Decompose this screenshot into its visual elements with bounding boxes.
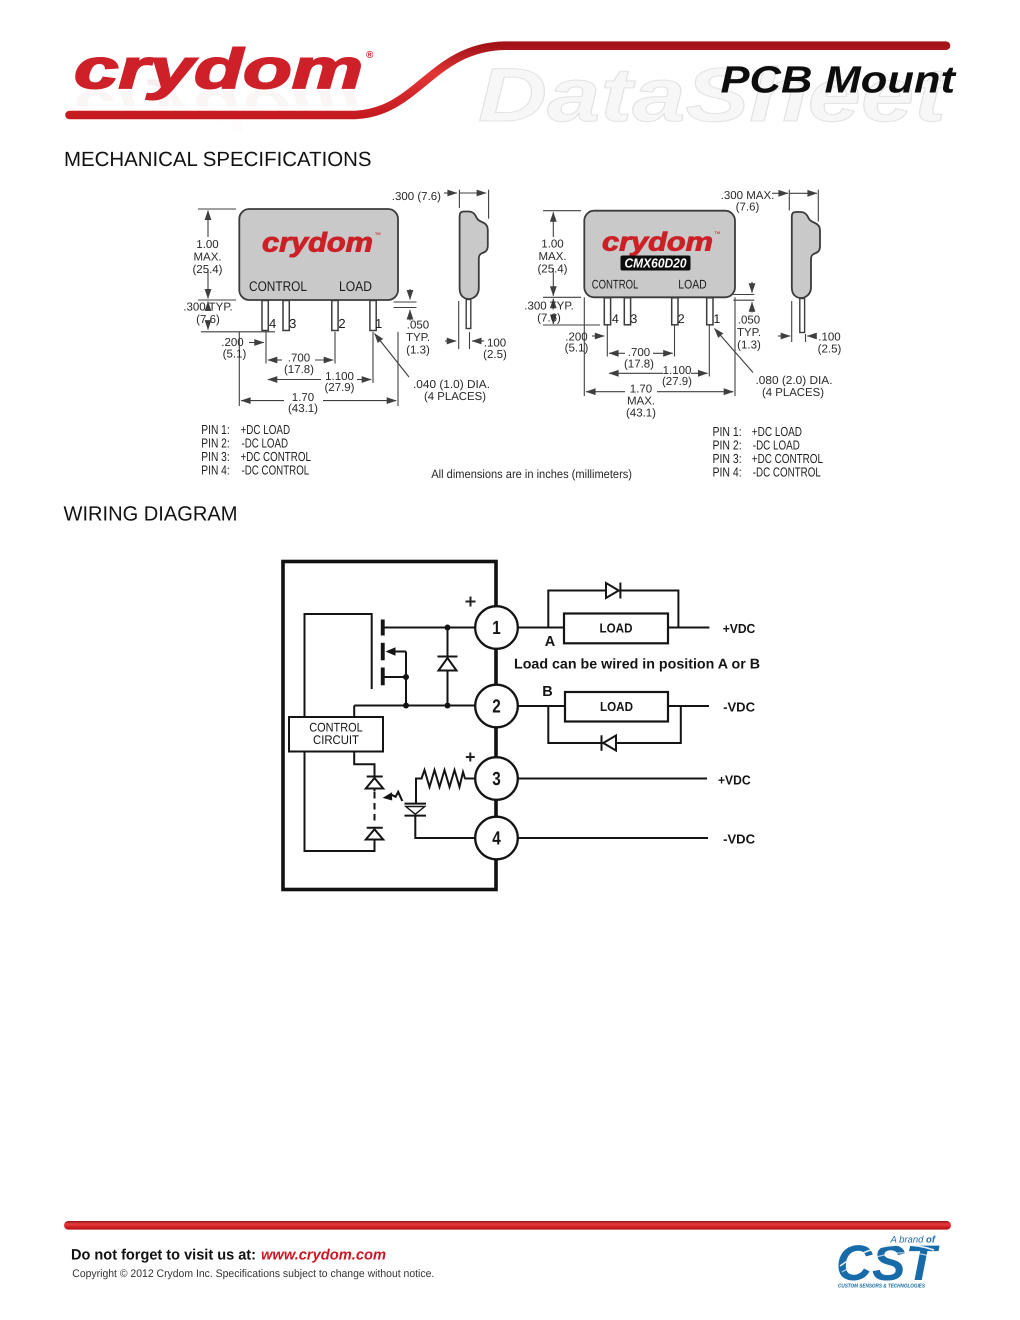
svg-text:4: 4 — [492, 828, 501, 849]
svg-text:.300 TYP.: .300 TYP. — [183, 302, 232, 314]
svg-text:3: 3 — [630, 312, 637, 326]
svg-text:(43.1): (43.1) — [288, 403, 318, 415]
left side view pin — [466, 300, 471, 329]
svg-text:.040 (1.0) DIA.: .040 (1.0) DIA. — [413, 379, 490, 391]
svg-text:(5.1): (5.1) — [565, 343, 589, 355]
svg-text:PIN 4:: PIN 4: — [201, 463, 229, 478]
right side view body — [792, 212, 820, 298]
SSR outline box — [283, 562, 496, 890]
svg-text:CUSTOM SENSORS & TECHNOLOGIES: CUSTOM SENSORS & TECHNOLOGIES — [838, 1284, 925, 1290]
svg-text:B: B — [542, 684, 552, 700]
opto light arrow — [390, 792, 402, 801]
svg-text:CONTROL: CONTROL — [592, 278, 639, 292]
svg-text:3: 3 — [289, 316, 296, 331]
MECHANICAL SPECIFICATIONS SECTION — [64, 148, 841, 481]
diode D5 (position A bypass) — [606, 583, 620, 599]
svg-text:.700: .700 — [628, 347, 650, 359]
wire control circuit to pin 2 — [353, 706, 355, 718]
svg-text:(4 PLACES): (4 PLACES) — [762, 387, 824, 399]
FOOTER — [64, 1221, 951, 1291]
svg-text:.300 (7.6): .300 (7.6) — [392, 191, 441, 203]
svg-text:www.crydom.com: www.crydom.com — [261, 1247, 386, 1264]
svg-text:(7.6): (7.6) — [537, 312, 561, 324]
left dimension lines — [198, 209, 398, 406]
svg-text:1.70: 1.70 — [630, 384, 652, 396]
svg-text:1: 1 — [492, 618, 501, 639]
svg-text:(17.8): (17.8) — [284, 364, 314, 376]
wire control circuit to LED chain — [354, 752, 374, 777]
svg-text:CMX60D20: CMX60D20 — [625, 256, 688, 271]
svg-text:4: 4 — [269, 316, 276, 331]
right package body — [584, 211, 735, 298]
svg-text:.080 (2.0) DIA.: .080 (2.0) DIA. — [756, 375, 833, 387]
svg-text:(43.1): (43.1) — [626, 407, 656, 419]
svg-text:crydom: crydom — [262, 228, 373, 258]
HEADER — [60, 37, 957, 142]
svg-text:crydom: crydom — [602, 227, 713, 257]
pin terminal 4 — [475, 817, 518, 860]
wire resistor corner — [416, 779, 423, 805]
svg-text:.300 MAX.: .300 MAX. — [721, 190, 775, 202]
right package pins — [604, 298, 713, 325]
svg-text:LOAD: LOAD — [600, 699, 633, 714]
svg-text:(27.9): (27.9) — [324, 382, 354, 394]
wire pin 1 to load A — [515, 627, 564, 629]
wire resistor to pin 3 — [465, 778, 479, 780]
svg-text:.200: .200 — [565, 331, 587, 343]
resistor R1 — [422, 770, 466, 787]
left pin numbers — [269, 316, 382, 331]
wire control circuit return — [305, 752, 375, 852]
left side view body — [460, 212, 488, 299]
plus sign pin 1 — [466, 597, 476, 607]
LED D2 (optocoupler emitter) — [366, 777, 383, 792]
left pin function list — [201, 422, 311, 478]
svg-text:-DC CONTROL: -DC CONTROL — [753, 465, 821, 480]
svg-text:LOAD: LOAD — [678, 278, 706, 292]
svg-text:(4 PLACES): (4 PLACES) — [424, 391, 486, 403]
right dimension lines — [543, 211, 735, 396]
wire load A bypass branch — [548, 591, 678, 628]
svg-text:TYP.: TYP. — [737, 327, 761, 339]
diode D6 (position B bypass) — [602, 735, 617, 751]
svg-text:.050: .050 — [407, 320, 429, 332]
svg-text:(5.1): (5.1) — [223, 349, 247, 361]
svg-text:.200: .200 — [221, 337, 243, 349]
transistor Q1 drain bar — [381, 620, 385, 636]
svg-text:(17.8): (17.8) — [624, 358, 654, 370]
svg-text:(7.6): (7.6) — [736, 201, 760, 213]
svg-text:MAX.: MAX. — [193, 252, 221, 264]
svg-text:CONTROL: CONTROL — [249, 278, 307, 294]
svg-text:PIN 4:: PIN 4: — [713, 465, 742, 480]
transistor Q1 source bar — [381, 668, 385, 686]
transistor Q1 body bar — [381, 643, 385, 661]
wire pin 2 net — [354, 705, 478, 707]
svg-text:™: ™ — [714, 231, 721, 238]
svg-text:.050: .050 — [738, 314, 760, 326]
pin terminal 2 — [475, 685, 518, 728]
svg-text:A: A — [545, 634, 556, 650]
wire pin 4 to -VDC — [515, 837, 708, 839]
svg-text:1.00: 1.00 — [196, 239, 218, 251]
load box B — [565, 692, 668, 722]
svg-text:(27.9): (27.9) — [662, 376, 692, 388]
right side view pin — [800, 299, 805, 333]
svg-text:2: 2 — [678, 312, 685, 326]
wire pin 3 to +VDC — [515, 778, 707, 780]
wire photo-scr to pin 4 — [415, 815, 478, 838]
pin terminal 1 — [475, 606, 518, 649]
wire load B to -VDC — [668, 705, 709, 707]
svg-text:CIRCUIT: CIRCUIT — [313, 733, 359, 747]
junction dot source net — [403, 703, 409, 709]
wire drain to pin 1 — [385, 627, 479, 629]
svg-text:LOAD: LOAD — [339, 278, 372, 294]
WIRING DIAGRAM SECTION — [64, 502, 761, 889]
svg-text:.100: .100 — [818, 331, 840, 343]
control circuit U1 box — [289, 717, 383, 752]
svg-text:TYP.: TYP. — [406, 332, 430, 344]
svg-text:™: ™ — [375, 232, 382, 239]
wire gate line — [371, 613, 373, 689]
svg-text:(7.6): (7.6) — [196, 314, 220, 326]
left dimension texts — [183, 239, 354, 415]
svg-text:(25.4): (25.4) — [537, 263, 567, 275]
wire body tie — [405, 652, 407, 678]
svg-text:+VDC: +VDC — [718, 772, 751, 787]
right pin function list — [713, 424, 824, 480]
right dimension texts — [524, 238, 692, 419]
svg-text:(1.3): (1.3) — [737, 339, 761, 351]
svg-text:crydom: crydom — [74, 37, 363, 100]
plus sign pin 3 — [466, 753, 475, 762]
svg-text:PCB Mount: PCB Mount — [721, 60, 957, 102]
svg-text:1: 1 — [713, 312, 720, 326]
red swoosh — [70, 46, 947, 115]
wire load B bypass branch — [548, 706, 681, 743]
right package CMX60D20 label — [621, 256, 691, 271]
svg-text:.100: .100 — [484, 338, 506, 350]
svg-text:(1.3): (1.3) — [406, 345, 430, 357]
svg-text:Copyright © 2012 Crydom Inc. S: Copyright © 2012 Crydom Inc. Specificati… — [72, 1268, 434, 1280]
svg-text:(2.5): (2.5) — [818, 343, 842, 355]
svg-text:(2.5): (2.5) — [483, 349, 507, 361]
svg-text:-DC CONTROL: -DC CONTROL — [242, 463, 310, 478]
left package pins — [262, 301, 376, 331]
transistor Q1 body arrow — [394, 651, 406, 653]
dashed link between opto LEDs — [374, 792, 376, 825]
svg-text:1.00: 1.00 — [541, 238, 563, 250]
left side view dimensions — [375, 190, 489, 377]
svg-text:-VDC: -VDC — [723, 699, 756, 714]
svg-text:2: 2 — [492, 696, 501, 717]
svg-text:®: ® — [366, 50, 374, 61]
svg-text:Do not forget to visit us at:: Do not forget to visit us at: — [71, 1247, 256, 1264]
svg-text:MAX.: MAX. — [627, 395, 655, 407]
svg-text:4: 4 — [612, 312, 619, 326]
svg-text:-VDC: -VDC — [723, 831, 756, 846]
LED D3 (optocoupler emitter) — [366, 828, 383, 840]
photo-SCR D4 — [405, 804, 427, 816]
load box A — [564, 614, 668, 644]
wire pin 2 to load B — [515, 705, 565, 707]
svg-text:MECHANICAL SPECIFICATIONS: MECHANICAL SPECIFICATIONS — [64, 148, 372, 171]
svg-text:+VDC: +VDC — [723, 621, 756, 636]
svg-text:LOAD: LOAD — [600, 621, 633, 636]
svg-text:3: 3 — [492, 769, 501, 790]
svg-text:.300 TYP.: .300 TYP. — [524, 300, 573, 312]
svg-text:WIRING DIAGRAM: WIRING DIAGRAM — [64, 502, 238, 525]
footer red bar — [64, 1221, 951, 1230]
pin terminal 3 — [475, 757, 518, 800]
svg-text:1: 1 — [375, 316, 382, 331]
svg-text:Load can be wired in position: Load can be wired in position A or B — [514, 657, 760, 673]
wire load A to +VDC — [668, 627, 709, 629]
right side view dimensions — [715, 190, 819, 373]
left package body — [239, 209, 398, 300]
svg-text:MAX.: MAX. — [538, 251, 566, 263]
wire source segment — [385, 677, 407, 706]
right pin numbers — [612, 312, 721, 326]
wire gate loop top — [305, 614, 372, 717]
junction dot drain/diode — [445, 625, 451, 631]
svg-text:.700: .700 — [288, 353, 310, 365]
svg-text:2: 2 — [338, 316, 345, 331]
svg-text:(25.4): (25.4) — [192, 264, 222, 276]
svg-text:All dimensions are in inches (: All dimensions are in inches (millimeter… — [431, 467, 632, 481]
diode D1 (MOSFET body diode) — [438, 628, 458, 706]
junction dot source corner — [403, 674, 409, 680]
junction dot diode anode — [445, 703, 451, 709]
